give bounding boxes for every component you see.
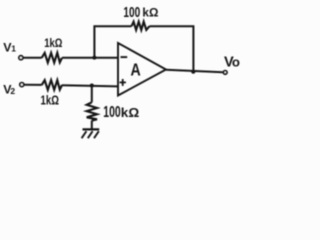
svg-text:100: 100 xyxy=(103,104,120,121)
svg-text:2: 2 xyxy=(10,86,15,96)
svg-text:100: 100 xyxy=(123,4,140,21)
svg-text:A: A xyxy=(131,59,142,79)
svg-text:kΩ: kΩ xyxy=(121,105,139,120)
svg-text:1kΩ: 1kΩ xyxy=(41,92,59,107)
svg-text:kΩ: kΩ xyxy=(142,6,158,20)
svg-text:1kΩ: 1kΩ xyxy=(44,36,63,50)
svg-text:1: 1 xyxy=(11,44,16,54)
svg-text:o: o xyxy=(232,54,240,69)
